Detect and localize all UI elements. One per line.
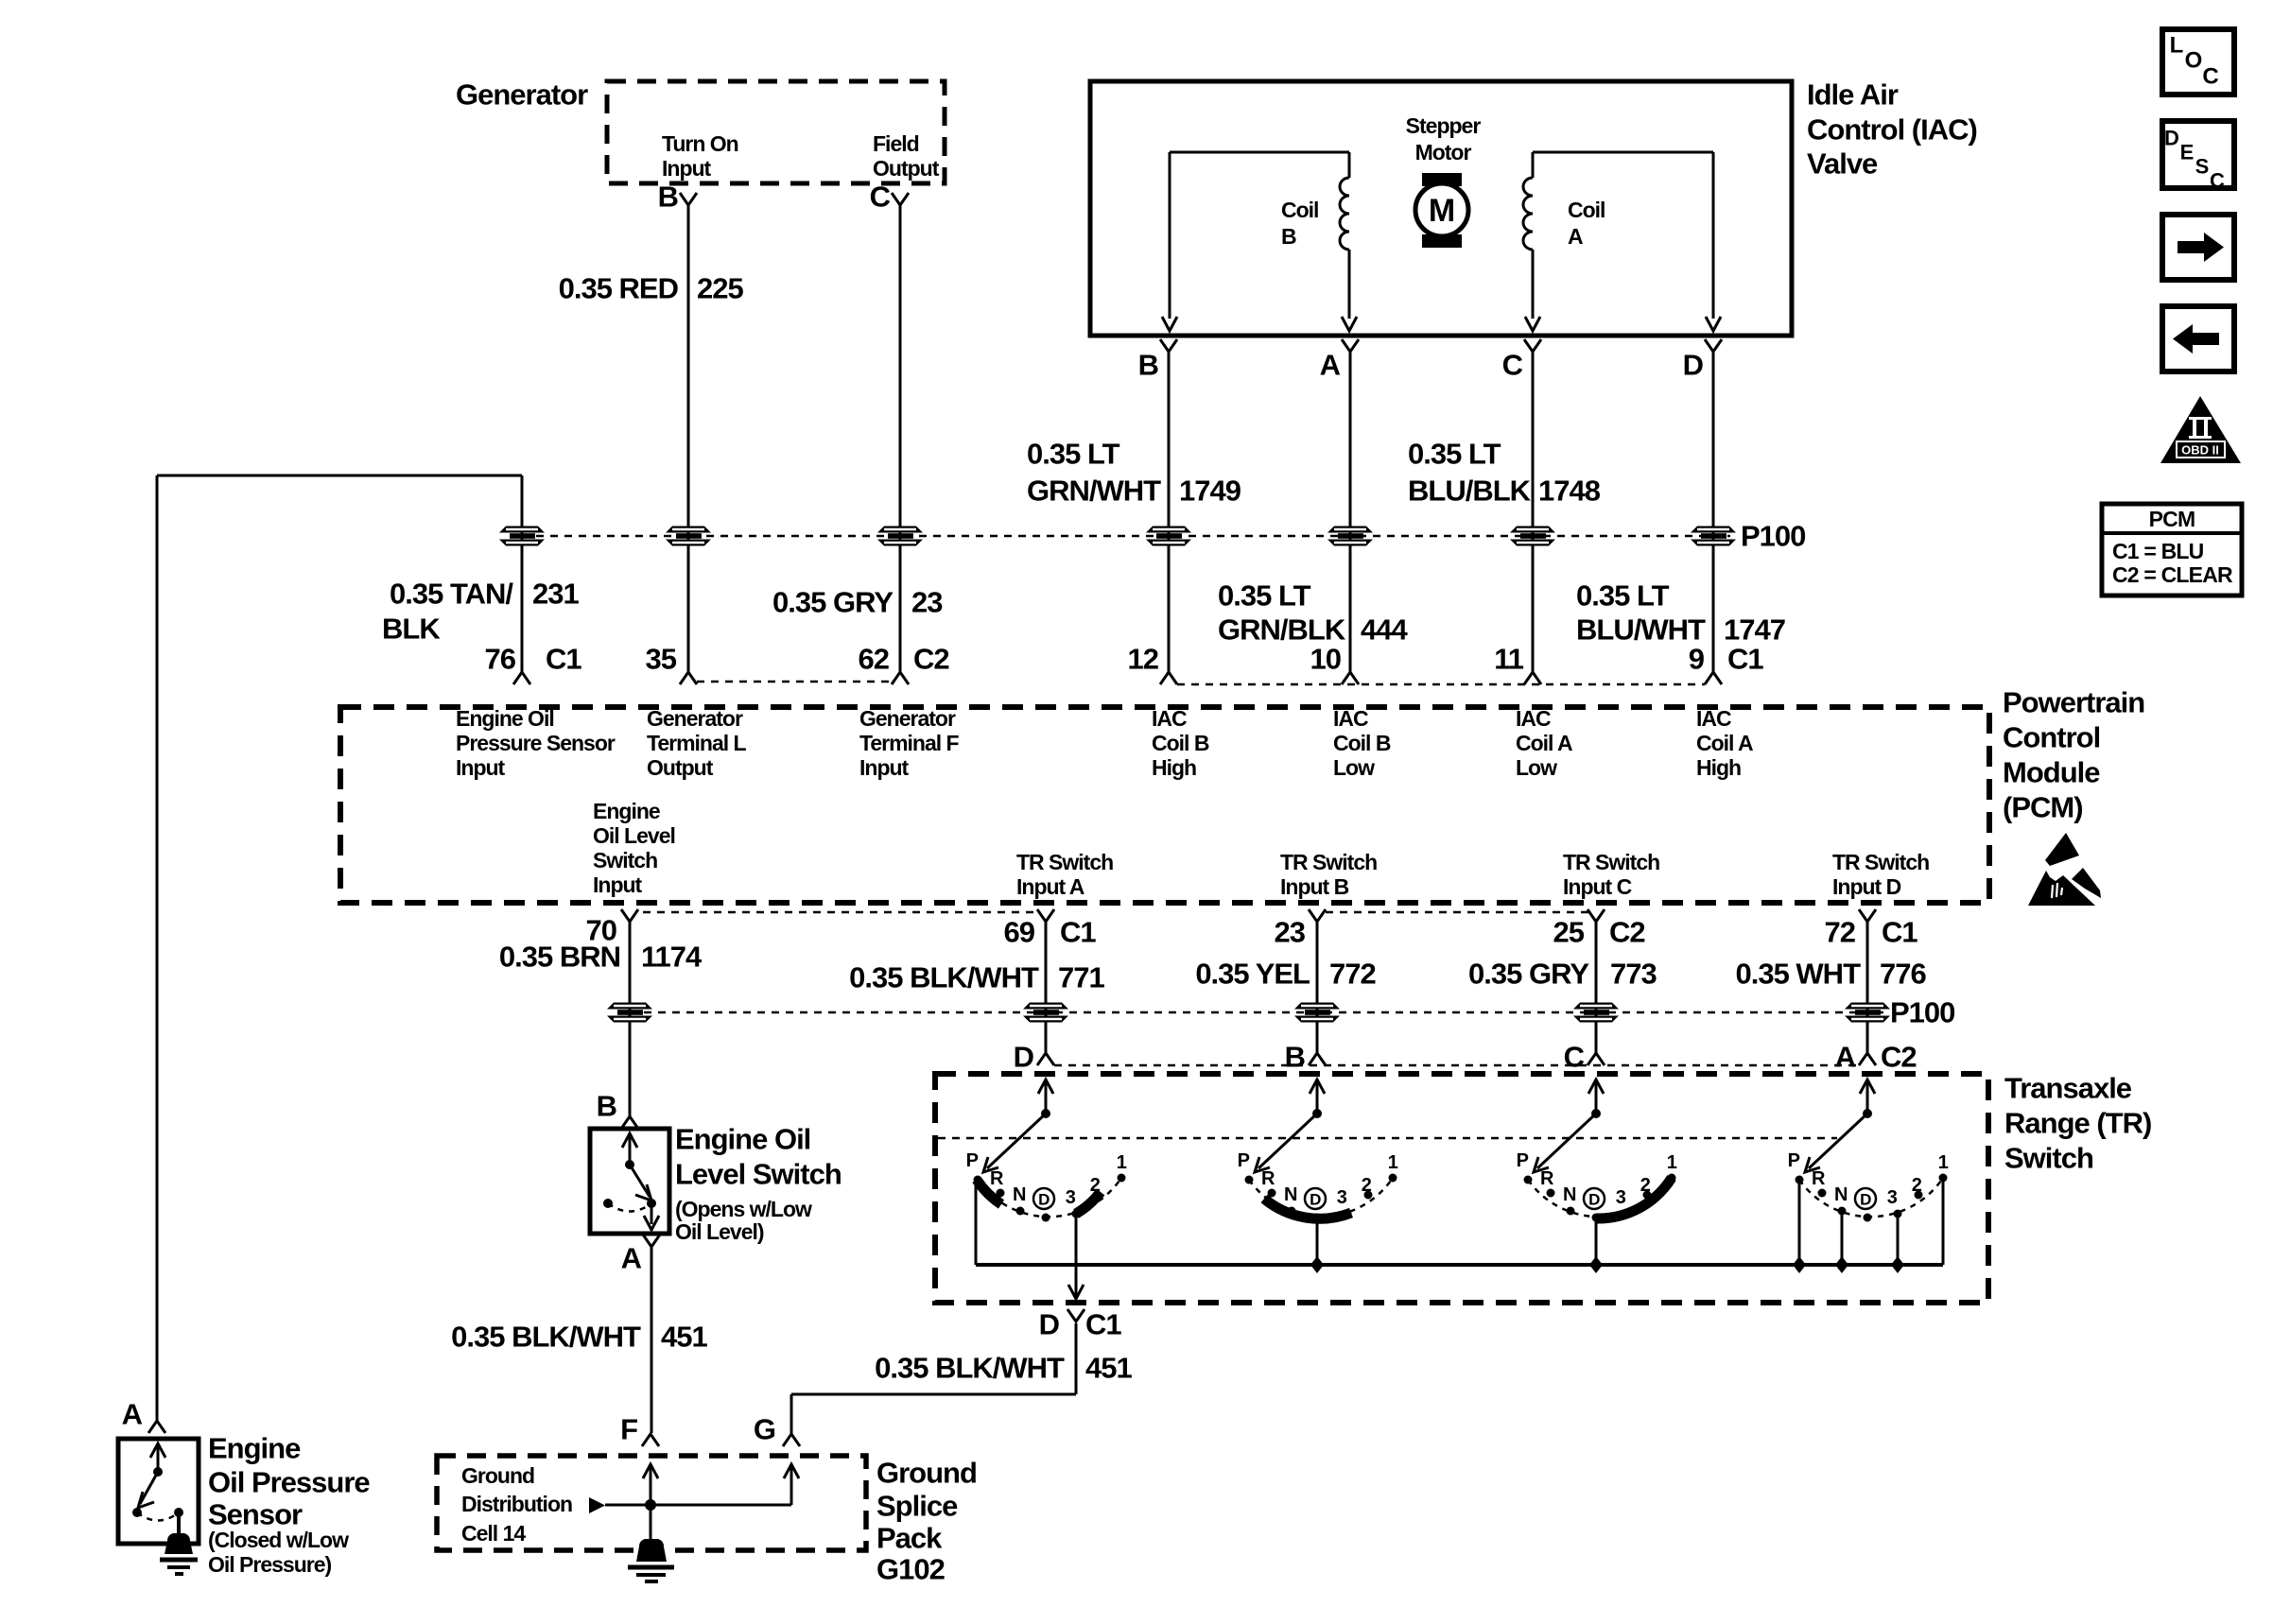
pin F of ground splice pack	[620, 1413, 659, 1447]
in-line connector P100 at x=1621	[1510, 527, 1555, 546]
PCM pin 72 C1	[1825, 909, 1918, 949]
svg-text:GRN/WHT: GRN/WHT	[1027, 475, 1161, 508]
svg-text:P: P	[1238, 1150, 1250, 1171]
svg-text:S: S	[2195, 155, 2210, 179]
svg-text:B: B	[658, 181, 678, 214]
svg-text:Stepper: Stepper	[1406, 113, 1482, 138]
svg-text:C1: C1	[1882, 916, 1917, 949]
wire label 0.35 BLK/WHT 451 right	[875, 1352, 1132, 1385]
arrow at coil B inductor leg	[1342, 317, 1357, 331]
thick contact arc R-3 switch 2	[1264, 1199, 1351, 1218]
svg-text:D: D	[1860, 1191, 1871, 1209]
svg-text:IAC: IAC	[1152, 706, 1187, 731]
svg-text:Pressure Sensor: Pressure Sensor	[456, 731, 616, 755]
in-line connector P100 at x=1236	[1146, 527, 1191, 546]
wire PCM70 lower section to oil level switch pin B	[621, 1116, 638, 1129]
svg-text:D: D	[1310, 1191, 1321, 1209]
PCM pin 11	[1494, 643, 1541, 685]
svg-text:Range (TR): Range (TR)	[2004, 1107, 2151, 1140]
svg-text:Input C: Input C	[1563, 874, 1632, 899]
svg-text:C2: C2	[913, 643, 949, 676]
thick contact arc 3-2 switch 1	[1076, 1192, 1101, 1214]
svg-text:Input: Input	[662, 156, 712, 181]
ground splice internal wire G with arrow	[784, 1464, 799, 1505]
PCM label IAC Coil A High	[1696, 706, 1753, 780]
svg-text:C: C	[870, 181, 891, 214]
svg-text:BLU/BLK: BLU/BLK	[1408, 475, 1532, 508]
oil pressure sensor internal contacts	[132, 1443, 183, 1533]
svg-text:Ground: Ground	[876, 1457, 977, 1490]
svg-text:C1: C1	[1727, 643, 1763, 676]
connector grouping dashed link TR pins D-A	[1054, 1064, 1859, 1067]
wire switch 1 P contact to bus	[975, 1179, 978, 1265]
coil A of IAC (inductor)	[1523, 152, 1713, 331]
TR switch pin D C1 bottom	[1039, 1308, 1122, 1341]
wire coil A right leg with arrow	[1706, 152, 1721, 331]
svg-text:D: D	[1038, 1191, 1050, 1209]
svg-text:P: P	[1517, 1150, 1529, 1171]
svg-text:Splice: Splice	[876, 1490, 958, 1523]
svg-text:0.35 GRY: 0.35 GRY	[772, 586, 894, 619]
svg-text:62: 62	[859, 643, 889, 676]
ground splice internal horizontal wire and distribution arrow	[589, 1497, 791, 1513]
wire label 0.35 LT GRN/BLK 444	[1218, 579, 1408, 647]
svg-text:771: 771	[1058, 961, 1104, 994]
svg-text:Coil A: Coil A	[1516, 731, 1572, 755]
svg-text:Generator: Generator	[859, 706, 956, 731]
svg-text:P: P	[1788, 1150, 1800, 1171]
svg-text:C2: C2	[1881, 1041, 1917, 1074]
connector grouping dashed link pins 35-62	[697, 681, 892, 683]
svg-text:E: E	[2180, 141, 2195, 164]
engine oil pressure sensor box	[118, 1439, 199, 1544]
svg-text:451: 451	[1085, 1352, 1132, 1385]
harness dashed line P100 row 2	[630, 1011, 1883, 1014]
connector grouping dashed link pins 70-69	[643, 911, 1035, 914]
PCM connector legend box	[2102, 504, 2242, 596]
stepper motor M symbol	[1415, 173, 1468, 248]
svg-text:2: 2	[1912, 1175, 1922, 1196]
wire IAC C to PCM pin 11 (0.35 LT BLU/BLK 1748)	[1532, 352, 1535, 672]
PCM label IAC Coil B High	[1152, 706, 1209, 780]
svg-text:772: 772	[1329, 958, 1376, 991]
svg-text:69: 69	[1004, 916, 1035, 949]
engine oil level switch box	[590, 1129, 669, 1234]
svg-text:(Closed w/Low: (Closed w/Low	[208, 1528, 349, 1552]
svg-text:IAC: IAC	[1333, 706, 1368, 731]
svg-text:Module: Module	[2003, 756, 2100, 789]
svg-text:M: M	[1429, 193, 1455, 229]
in-line connector P100 row2 at x=666	[607, 1003, 652, 1023]
PCM label TR Switch Input B	[1280, 850, 1377, 899]
wire label 0.35 RED 225	[559, 272, 744, 305]
svg-text:C: C	[1502, 349, 1523, 382]
pin A of oil pressure sensor	[122, 1398, 165, 1434]
ground splice pack box (dashed)	[437, 1456, 866, 1550]
svg-text:(PCM): (PCM)	[2003, 791, 2083, 824]
svg-text:Engine Oil: Engine Oil	[675, 1123, 810, 1156]
svg-text:O: O	[2185, 48, 2203, 74]
svg-text:1: 1	[1938, 1152, 1949, 1173]
svg-text:BLU/WHT: BLU/WHT	[1576, 613, 1706, 647]
label Powertrain Control Module (PCM)	[2003, 686, 2144, 824]
svg-text:231: 231	[532, 578, 579, 611]
label Ground Splice Pack G102	[876, 1457, 977, 1586]
svg-text:P100: P100	[1741, 520, 1805, 553]
in-line connector P100 at x=1812	[1691, 527, 1736, 546]
in-line connector P100 row2 at x=1975	[1845, 1003, 1890, 1023]
svg-text:12: 12	[1128, 643, 1158, 676]
pin B of generator	[658, 181, 697, 214]
svg-text:Idle Air: Idle Air	[1807, 78, 1899, 112]
pin C of IAC valve	[1502, 339, 1541, 382]
forward arrow icon box	[2162, 215, 2234, 280]
wire label 0.35 WHT 776	[1735, 958, 1926, 991]
svg-text:0.35 BLK/WHT: 0.35 BLK/WHT	[875, 1352, 1065, 1385]
wire label 0.35 BRN 1174	[499, 941, 703, 974]
label Closed w/Low Oil Pressure	[208, 1528, 349, 1577]
svg-text:Engine: Engine	[593, 799, 660, 823]
svg-text:TR Switch: TR Switch	[1280, 850, 1377, 874]
TR switch pin C	[1564, 1041, 1605, 1074]
PCM label TR Switch Input D	[1832, 850, 1929, 899]
label Idle Air Control (IAC) Valve	[1807, 78, 1977, 181]
svg-text:0.35 LT: 0.35 LT	[1218, 579, 1311, 613]
svg-text:0.35 RED: 0.35 RED	[559, 272, 679, 305]
ground splice internal wire F with arrow	[643, 1464, 658, 1553]
svg-text:Input: Input	[593, 872, 643, 897]
wire switch 3 D contact to bus	[1589, 1218, 1603, 1273]
pin B of IAC valve	[1138, 339, 1177, 382]
svg-text:0.35 BLK/WHT: 0.35 BLK/WHT	[849, 961, 1039, 994]
pin A of oil level switch	[621, 1235, 660, 1275]
rotary switch contact set for TR switch input C	[1517, 1080, 1677, 1222]
svg-text:23: 23	[1275, 916, 1306, 949]
PCM pin 23	[1275, 909, 1326, 949]
wire label 0.35 BLK/WHT 451 left	[451, 1321, 707, 1354]
svg-text:Switch: Switch	[2004, 1142, 2093, 1175]
PCM pin 12	[1128, 643, 1177, 685]
wire switch 4 contact 3 to bus	[1891, 1214, 1904, 1273]
in-line connector P100 row2 at x=1106	[1023, 1003, 1068, 1023]
svg-text:GRN/BLK: GRN/BLK	[1218, 613, 1346, 647]
svg-text:C2 = CLEAR: C2 = CLEAR	[2112, 562, 2233, 587]
svg-text:Engine: Engine	[208, 1432, 301, 1465]
svg-text:Generator: Generator	[647, 706, 743, 731]
svg-text:C1: C1	[1060, 916, 1096, 949]
label Engine Oil Pressure Sensor	[208, 1432, 370, 1531]
svg-text:Distribution: Distribution	[461, 1492, 572, 1516]
svg-text:25: 25	[1553, 916, 1585, 949]
svg-text:Coil: Coil	[1281, 198, 1318, 222]
in-line connector P100 at x=552	[499, 527, 545, 546]
coil B of IAC (inductor)	[1170, 152, 1349, 319]
wire label 0.35 GRY 773	[1468, 958, 1657, 991]
wire IAC D to PCM pin 9 (0.35 LT BLU/WHT 1747)	[1712, 352, 1715, 672]
PCM pin 62 C2	[859, 643, 949, 685]
in-line connector P100 at x=1428	[1327, 527, 1373, 546]
thick contact arc P-R switch 1	[977, 1180, 1001, 1204]
svg-text:1748: 1748	[1538, 475, 1601, 508]
wire oil level switch A to ground splice F (0.35 BLK/WHT 451)	[651, 1247, 653, 1433]
svg-text:A: A	[122, 1398, 143, 1431]
svg-text:Oil Pressure: Oil Pressure	[208, 1466, 370, 1499]
svg-text:A: A	[1835, 1041, 1856, 1074]
svg-text:0.35 GRY: 0.35 GRY	[1468, 958, 1589, 991]
svg-text:0.35 BRN: 0.35 BRN	[499, 941, 620, 974]
svg-text:Output: Output	[873, 156, 940, 181]
svg-text:Terminal F: Terminal F	[859, 731, 960, 755]
TR switch pin B	[1285, 1041, 1326, 1074]
svg-text:3: 3	[1887, 1187, 1898, 1208]
svg-text:B: B	[597, 1090, 616, 1123]
svg-text:Input A: Input A	[1016, 874, 1084, 899]
svg-text:444: 444	[1361, 613, 1408, 647]
svg-text:0.35 LT: 0.35 LT	[1027, 438, 1120, 471]
wire switch 4 P contact to bus	[1793, 1180, 1806, 1273]
svg-text:35: 35	[646, 643, 677, 676]
ground symbol at oil pressure sensor	[160, 1533, 198, 1574]
svg-text:0.35 LT: 0.35 LT	[1576, 579, 1670, 613]
svg-text:Pack: Pack	[876, 1522, 943, 1555]
in-line connector P100 at x=952	[877, 527, 923, 546]
svg-text:776: 776	[1880, 958, 1926, 991]
svg-text:Input B: Input B	[1280, 874, 1349, 899]
svg-text:Coil A: Coil A	[1696, 731, 1753, 755]
svg-text:High: High	[1696, 755, 1741, 780]
svg-text:P: P	[966, 1150, 979, 1171]
wire label 0.35 LT GRN/WHT 1749	[1027, 438, 1241, 508]
PCM pin 35	[646, 643, 697, 685]
svg-text:1: 1	[1667, 1152, 1677, 1173]
wire IAC A to PCM pin 10 (0.35 LT GRN/BLK 444)	[1349, 352, 1352, 672]
svg-text:1174: 1174	[641, 941, 703, 974]
PCM label Generator Terminal F Input	[859, 706, 960, 780]
OBD II triangle icon	[2160, 396, 2241, 463]
pin D of IAC valve	[1683, 339, 1722, 382]
wire switch 4 N contact to bus	[1835, 1211, 1848, 1273]
svg-text:10: 10	[1310, 643, 1341, 676]
connector grouping dashed link pins 23-25	[1326, 911, 1588, 914]
svg-text:High: High	[1152, 755, 1196, 780]
PCM pin 10	[1310, 643, 1359, 685]
PCM pin 25 C2	[1553, 909, 1645, 949]
svg-text:N: N	[1013, 1184, 1026, 1205]
label Field Output	[873, 131, 940, 181]
svg-text:OBD II: OBD II	[2181, 443, 2219, 458]
svg-text:(Opens w/Low: (Opens w/Low	[675, 1197, 812, 1221]
svg-text:Terminal L: Terminal L	[647, 731, 747, 755]
svg-text:L: L	[2170, 33, 2184, 59]
svg-text:Sensor: Sensor	[208, 1498, 303, 1531]
svg-text:11: 11	[1494, 643, 1524, 676]
in-line connector P100 row2 at x=1393	[1294, 1003, 1340, 1023]
IAC valve component box	[1090, 81, 1792, 336]
wire label 0.35 LT BLU/WHT 1747	[1576, 579, 1785, 647]
harness dashed line P100 row 1	[522, 535, 1730, 538]
svg-text:IAC: IAC	[1516, 706, 1551, 731]
generator component box (dashed)	[607, 81, 945, 183]
svg-text:Level Switch: Level Switch	[675, 1158, 842, 1191]
svg-text:Generator: Generator	[456, 78, 588, 112]
svg-text:TR Switch: TR Switch	[1016, 850, 1113, 874]
svg-text:Input D: Input D	[1832, 874, 1901, 899]
svg-text:Ground: Ground	[461, 1463, 534, 1488]
svg-text:Engine Oil: Engine Oil	[456, 706, 554, 731]
svg-text:D: D	[1588, 1191, 1600, 1209]
thick contact arc D-1 switch 3	[1596, 1178, 1672, 1218]
svg-text:Low: Low	[1516, 755, 1557, 780]
pin G of ground splice pack	[754, 1413, 800, 1447]
svg-text:451: 451	[661, 1321, 707, 1354]
svg-text:C1: C1	[1085, 1308, 1121, 1341]
wire switch 2 D contact to bus	[1310, 1218, 1324, 1273]
svg-text:0.35 TAN/: 0.35 TAN/	[390, 578, 513, 611]
label Engine Oil Level Switch	[675, 1123, 842, 1191]
svg-text:1747: 1747	[1724, 613, 1785, 647]
PCM label TR Switch Input A	[1016, 850, 1113, 899]
pin C of generator	[870, 181, 909, 214]
label Transaxle Range (TR) Switch	[2004, 1072, 2151, 1175]
PCM label IAC Coil B Low	[1333, 706, 1391, 780]
svg-text:R: R	[1812, 1168, 1826, 1189]
wire PCM 25 to TR switch C (0.35 GRY 773)	[1595, 922, 1598, 1053]
svg-text:C: C	[2202, 64, 2218, 90]
TR switch pin D	[1014, 1041, 1054, 1074]
svg-text:Input: Input	[456, 755, 506, 780]
svg-text:9: 9	[1689, 643, 1705, 676]
svg-text:3: 3	[1337, 1187, 1347, 1208]
svg-text:Coil B: Coil B	[1333, 731, 1391, 755]
svg-text:1: 1	[1117, 1152, 1127, 1173]
oil level switch internal contacts	[603, 1133, 659, 1230]
rotary switch contact set for TR switch input B	[1238, 1080, 1398, 1222]
svg-text:72: 72	[1825, 916, 1855, 949]
svg-text:0.35 BLK/WHT: 0.35 BLK/WHT	[451, 1321, 641, 1354]
connector grouping dashed link pins 12-9	[1177, 683, 1705, 686]
wire label 0.35 YEL 772	[1195, 958, 1375, 991]
wire IAC B to PCM pin 12 (0.35 LT GRN/WHT 1749)	[1168, 352, 1171, 672]
PCM label IAC Coil A Low	[1516, 706, 1572, 780]
svg-text:PCM: PCM	[2149, 507, 2195, 531]
DESC icon box	[2162, 121, 2234, 193]
svg-text:G: G	[754, 1413, 775, 1446]
svg-text:B: B	[1138, 349, 1158, 382]
svg-text:Field: Field	[873, 131, 919, 156]
rotary switch contact set for TR switch input D	[966, 1080, 1127, 1222]
svg-text:3: 3	[1066, 1187, 1076, 1208]
back arrow icon box	[2162, 306, 2234, 371]
svg-text:TR Switch: TR Switch	[1563, 850, 1659, 874]
wire TR switch D C1 to ground splice G (0.35 BLK/WHT 451)	[791, 1323, 1076, 1434]
label Coil A	[1568, 198, 1605, 249]
PCM label Engine Oil Pressure Sensor Input	[456, 706, 616, 780]
wire PCM 72 to TR switch A (0.35 WHT 776)	[1866, 922, 1869, 1053]
svg-text:Switch: Switch	[593, 848, 657, 872]
svg-text:A: A	[1568, 224, 1583, 249]
ground symbol G102	[628, 1539, 674, 1581]
wire label 0.35 TAN/BLK 231	[382, 578, 579, 646]
pin A of IAC valve	[1320, 339, 1359, 382]
svg-text:773: 773	[1610, 958, 1657, 991]
label Ground Distribution Cell 14	[461, 1463, 572, 1546]
svg-text:P100: P100	[1890, 996, 1954, 1029]
svg-text:D: D	[1039, 1308, 1060, 1341]
svg-text:0.35 LT: 0.35 LT	[1408, 438, 1501, 471]
svg-text:C: C	[2210, 169, 2225, 193]
wire generator C to PCM pin 62 (0.35 GRY 23)	[899, 205, 902, 672]
svg-text:BLK: BLK	[382, 613, 441, 646]
label Opens w/Low Oil Level	[675, 1197, 812, 1244]
PCM label Engine Oil Level Switch Input	[593, 799, 675, 897]
TR switch common bus wire	[976, 1263, 1943, 1267]
svg-text:3: 3	[1616, 1187, 1626, 1208]
wire PCM 23 to TR switch B (0.35 YEL 772)	[1316, 922, 1319, 1053]
svg-text:IAC: IAC	[1696, 706, 1731, 731]
TR switch internal dashed line	[938, 1137, 1837, 1140]
svg-text:Control: Control	[2003, 721, 2100, 754]
svg-text:F: F	[620, 1413, 637, 1446]
wire PCM 69 to TR switch D (0.35 BLK/WHT 771)	[1045, 922, 1048, 1053]
svg-text:Powertrain: Powertrain	[2003, 686, 2144, 719]
in-line connector P100 row2 at x=1688	[1573, 1003, 1619, 1023]
svg-text:B: B	[1281, 224, 1296, 249]
svg-text:Input: Input	[859, 755, 910, 780]
svg-text:Coil: Coil	[1568, 198, 1605, 222]
in-line connector P100 at x=728	[666, 527, 711, 546]
wire PCM 70 to engine oil level switch (0.35 BRN 1174)	[629, 922, 632, 1116]
svg-text:Oil Level): Oil Level)	[675, 1219, 764, 1244]
svg-text:C2: C2	[1609, 916, 1645, 949]
svg-text:Valve: Valve	[1807, 147, 1878, 181]
svg-text:G102: G102	[876, 1553, 945, 1586]
svg-text:R: R	[990, 1168, 1004, 1189]
svg-text:Cell 14: Cell 14	[461, 1521, 526, 1546]
svg-text:N: N	[1284, 1184, 1297, 1205]
svg-text:23: 23	[911, 586, 943, 619]
PCM label Generator Terminal L Output	[647, 706, 747, 780]
wire generator B to PCM pin 35 (0.35 RED 225)	[687, 205, 690, 672]
svg-text:R: R	[1540, 1168, 1554, 1189]
svg-text:0.35 WHT: 0.35 WHT	[1735, 958, 1861, 991]
svg-text:Coil B: Coil B	[1152, 731, 1209, 755]
svg-text:A: A	[621, 1242, 642, 1275]
wire label 0.35 BLK/WHT 771	[849, 961, 1104, 994]
svg-text:Oil Level: Oil Level	[593, 823, 675, 848]
PCM pin 70	[586, 909, 638, 947]
svg-text:C1: C1	[546, 643, 581, 676]
svg-text:225: 225	[697, 272, 743, 305]
svg-text:D: D	[1683, 349, 1704, 382]
svg-text:B: B	[1285, 1041, 1305, 1074]
wire coil B left leg with arrow	[1162, 152, 1177, 331]
svg-text:A: A	[1320, 349, 1341, 382]
svg-text:C1 = BLU: C1 = BLU	[2112, 539, 2204, 563]
PCM pin 69 C1	[1004, 909, 1097, 949]
svg-text:Motor: Motor	[1415, 140, 1472, 164]
label Coil B	[1281, 198, 1318, 249]
svg-text:Transaxle: Transaxle	[2004, 1072, 2132, 1105]
wire switch 4 contact 1 to bus	[1942, 1178, 1945, 1265]
svg-text:D: D	[2164, 127, 2179, 150]
rotary switch contact set for TR switch input A	[1788, 1080, 1949, 1222]
PCM pin 9 C1	[1689, 643, 1764, 685]
svg-text:2: 2	[1640, 1175, 1651, 1196]
LOC icon box	[2162, 29, 2234, 95]
svg-text:Turn On: Turn On	[662, 131, 738, 156]
svg-text:N: N	[1834, 1184, 1848, 1205]
svg-text:R: R	[1261, 1168, 1275, 1189]
